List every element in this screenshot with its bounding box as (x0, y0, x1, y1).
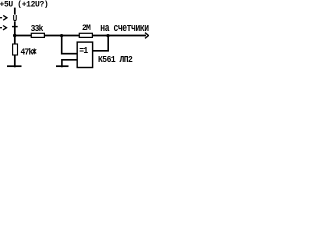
wire gate input 2 to ground (62, 60, 77, 67)
asterisk select mark (32, 48, 36, 54)
wire node C to gate output (93, 37, 108, 51)
svg-text:+5U (+12U?): +5U (+12U?) (0, 0, 48, 10)
arrowhead U on supply wire (14, 15, 17, 21)
svg-text:47k: 47k (21, 47, 34, 58)
svg-text:К561 ЛП2: К561 ЛП2 (98, 55, 133, 65)
gate U1 body (77, 42, 92, 67)
resistor R1 33k (31, 33, 44, 37)
plus polarity mark (12, 26, 18, 28)
annotation arrow 1 (0, 17, 2, 19)
svg-text:2M: 2M (82, 24, 91, 33)
wire node B to gate input 1 (62, 37, 77, 54)
ground bar right (56, 65, 69, 67)
wire R3 to ground (14, 55, 16, 67)
ground bar left (7, 65, 22, 67)
arrowhead to counters (145, 33, 149, 39)
node junction dot A (13, 34, 16, 37)
node junction dot B (60, 34, 63, 37)
svg-text:33k: 33k (31, 24, 44, 35)
wire down to R3 (14, 36, 16, 45)
node junction dot C (106, 34, 109, 37)
svg-text:на счетчики: на счетчики (100, 22, 149, 35)
resistor R3 47k (13, 44, 18, 55)
wire main horizontal rail (14, 35, 146, 37)
svg-text:=1: =1 (79, 46, 88, 57)
annotation arrow 2 (0, 27, 2, 29)
wire vertical supply lower segment (14, 21, 16, 34)
wire vertical supply upper segment (14, 8, 16, 15)
resistor R2 2M (79, 33, 92, 37)
